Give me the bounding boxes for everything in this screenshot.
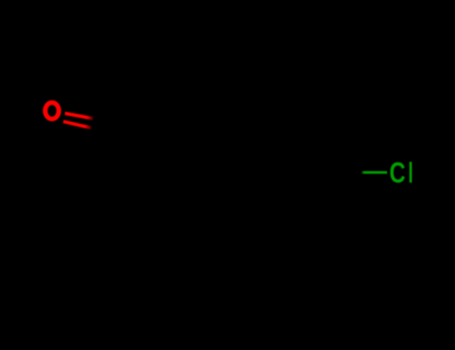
double bond C=O lower line bbox=[63, 122, 91, 128]
double bond C=O upper line bbox=[65, 113, 93, 118]
atom O (carbonyl oxygen) bbox=[45, 103, 59, 119]
bond C-Cl bbox=[362, 171, 387, 174]
svg-text:C: C bbox=[389, 158, 405, 189]
atom Cl (chlorine): letter l bbox=[409, 162, 412, 183]
